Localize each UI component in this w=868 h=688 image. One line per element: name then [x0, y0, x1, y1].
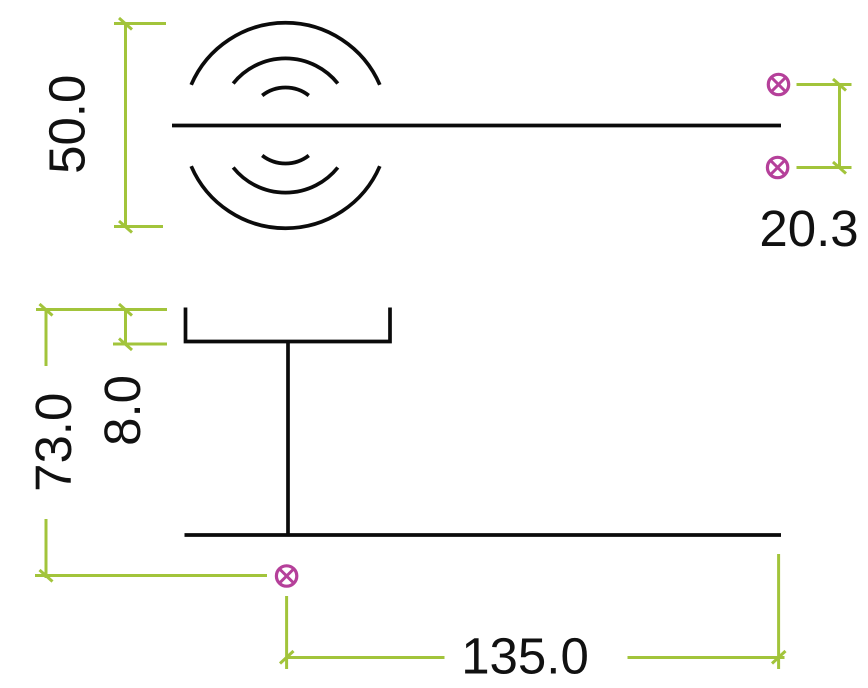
svg-text:8.0: 8.0 [94, 375, 151, 446]
dim 8.0 line [124, 310, 127, 345]
dim 135.0 extension left [285, 596, 288, 669]
dim 20.3 line [838, 85, 841, 168]
screw hole marker top-right upper [768, 74, 788, 94]
dim 8.0 tick bottom [119, 339, 132, 351]
dim 73.0 tick bottom [40, 570, 53, 582]
rose inner arc bottom [262, 156, 309, 164]
dim 73.0 tick top [40, 304, 53, 316]
dim 50.0 extension top [114, 22, 166, 25]
dim 135.0 extension right [777, 554, 780, 669]
lever stem (side view) [286, 342, 290, 536]
screw hole marker top-right lower [767, 157, 787, 177]
dim 135.0 tick right [772, 651, 786, 664]
svg-text:20.3: 20.3 [759, 200, 858, 257]
svg-text:73.0: 73.0 [25, 393, 82, 492]
dim 20.3 extension bottom [797, 166, 852, 169]
dim 50.0 tick top [119, 18, 132, 30]
rose middle arc bottom [233, 168, 338, 193]
dim 135.0 line left segment [287, 656, 445, 659]
svg-text:135.0: 135.0 [461, 628, 589, 685]
dim 8.0 tick top [119, 304, 132, 316]
rose side profile channel [186, 308, 391, 342]
dim 73.0 line upper segment [45, 310, 48, 367]
dim 73.0 extension bottom [35, 574, 267, 577]
lever centerline (front view) [172, 124, 781, 128]
rose inner arc top [262, 88, 309, 96]
dim 135.0 tick left [280, 651, 294, 664]
dim 8.0 extension bottom [113, 343, 167, 346]
svg-text:50.0: 50.0 [38, 75, 95, 174]
dim 135.0 line right segment [628, 656, 785, 659]
screw hole marker bottom [276, 566, 296, 586]
dim 20.3 tick bottom [833, 162, 846, 174]
rose middle arc top [233, 58, 338, 83]
rose outer arc top [191, 23, 380, 85]
rose outer arc bottom [191, 166, 380, 228]
dim 20.3 extension top [797, 83, 852, 86]
dim 50.0 line [124, 24, 127, 227]
dim 50.0 tick bottom [119, 221, 132, 233]
door face line [185, 533, 782, 537]
dim 8.0 extension top [36, 308, 167, 311]
dim 20.3 tick top [833, 79, 846, 91]
dim 50.0 extension bottom [114, 225, 163, 228]
dim 73.0 line lower segment [45, 519, 48, 578]
